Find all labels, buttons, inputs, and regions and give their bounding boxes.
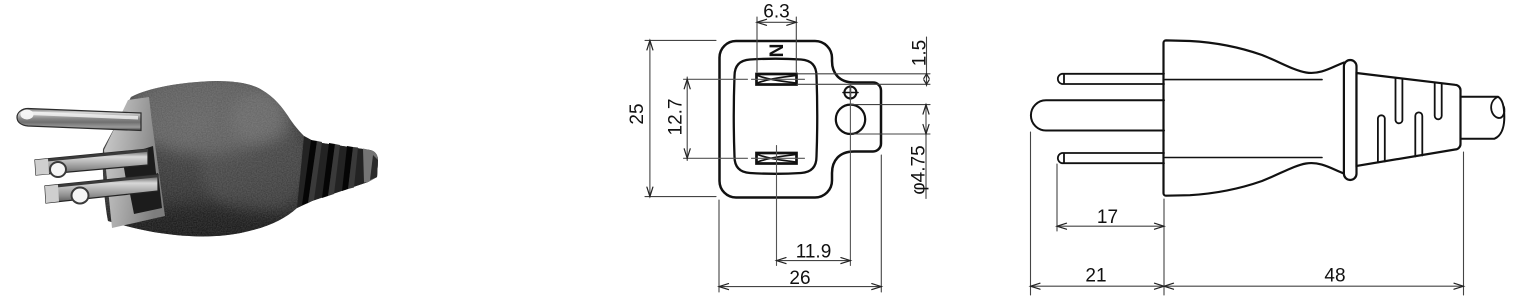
dimension 48 [1164,152,1464,295]
pin highlight [30,112,138,120]
dimension 26 [719,155,881,292]
pin tip highlight [21,110,34,120]
mold line bottom [1165,157,1322,159]
upper blade top edge [35,149,148,163]
plug face inner outline [734,59,818,174]
boot ridge 2 [328,144,340,196]
ground pin side [1031,100,1164,130]
centerline top blade horizontal [684,78,805,80]
svg-text:12.7: 12.7 [666,99,687,136]
strain relief tapered [1357,73,1461,166]
dimension 1.5 blade thickness extension lines [797,37,930,86]
ground pin circle [836,105,865,134]
upper blade tip face [35,159,49,175]
relief slot top 2 [1435,83,1442,119]
cable end cap [363,149,378,183]
face slot shadow upper [122,146,157,186]
dimension 17 [1057,164,1164,295]
dimension 6.3 [757,17,796,72]
centerline bottom blade horizontal [684,157,805,159]
lower blade hole [72,188,89,204]
bottom blade side [1058,153,1164,163]
cable end core [370,155,378,180]
svg-text:N: N [764,44,785,58]
body lower shadow [90,205,310,265]
center mark symbol [843,86,858,100]
boot ridge 1 [308,141,322,203]
plug body outline front [720,41,882,198]
mold line top [1165,79,1322,81]
centerline bottom blade vertical [776,146,778,266]
dimension phi 4.75 [851,105,930,199]
boot groove 2 [322,143,335,198]
relief slot bottom 2 [1415,112,1422,156]
live blade slot (bottom) [757,153,797,164]
dimension 21 [1031,132,1165,295]
boot groove 3 [342,146,353,191]
upper blade hole [50,162,66,177]
boot ridge 3 [348,147,358,189]
body profile side [1164,40,1345,195]
cable [1461,97,1505,139]
cable end curl [1491,97,1504,118]
svg-text:6.3: 6.3 [763,2,789,23]
flange [1344,60,1357,180]
svg-text:21: 21 [1085,266,1106,287]
face slot shadow lower [128,173,162,214]
lower blade [45,175,158,204]
neutral blade slot (top) [757,74,797,85]
ground pin [17,109,141,131]
body sheen highlight [125,70,285,154]
top blade side [1058,74,1164,84]
body speckle texture [95,75,385,245]
plug body molded [103,81,378,236]
dimension 25 [645,40,716,196]
upper blade [35,149,148,175]
dimension 12.7 [686,77,688,161]
lower blade top edge [45,175,158,189]
svg-text:φ4.75: φ4.75 [909,145,930,194]
svg-text:17: 17 [1097,207,1118,228]
strain relief boot [297,136,378,208]
lower blade tip face [45,185,59,203]
boot groove 1 [302,140,317,205]
svg-text:11.9: 11.9 [796,241,832,262]
svg-text:25: 25 [627,103,648,124]
relief slot top 1 [1396,79,1403,124]
dimension 11.9 [777,260,851,262]
relief slot bottom 1 [1378,115,1385,162]
svg-text:1.5: 1.5 [910,40,931,66]
svg-text:26: 26 [789,268,810,289]
face plate [104,97,165,228]
svg-text:48: 48 [1324,266,1345,287]
centerline pin vertical [849,85,851,266]
